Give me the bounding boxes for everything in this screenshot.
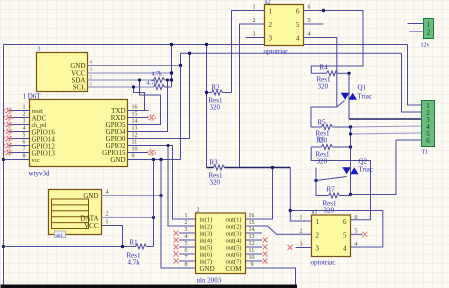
MCU right pin stubs 16-9: [128, 111, 149, 160]
wire opto1 pin3 stub: [246, 37, 265, 39]
svg-text:13: 13: [249, 234, 255, 240]
svg-text:14: 14: [132, 119, 138, 125]
svg-text:out(3): out(3): [226, 231, 242, 238]
svg-text:1: 1: [269, 8, 273, 16]
svg-text:out(5): out(5): [226, 245, 242, 252]
svg-text:2: 2: [300, 228, 303, 234]
wire Q1 gate: [337, 101, 345, 108]
triac Q1: [341, 93, 357, 100]
resistor pullup 4.7k SDA: [154, 78, 165, 83]
svg-text:2: 2: [197, 208, 200, 214]
svg-text:4.7k: 4.7k: [128, 259, 141, 267]
svg-text:out(4): out(4): [226, 238, 242, 245]
wire DHT VCC pin 1: [102, 226, 123, 247]
wire ULN GND vertical: [161, 160, 179, 269]
svg-text:8: 8: [185, 262, 188, 268]
svg-text:4.7k: 4.7k: [147, 81, 158, 87]
svg-text:2: 2: [316, 231, 320, 239]
no-ERC marks ULN in3-in7: [174, 231, 179, 264]
wire out1 riser: [262, 168, 273, 220]
wire VCC pullup vertical: [171, 45, 173, 88]
svg-text:in(2): in(2): [200, 224, 213, 231]
black power bus bar: [1, 285, 298, 288]
svg-text:in(1): in(1): [200, 217, 213, 224]
wire SDA jog to GPIO4: [149, 80, 168, 132]
svg-text:un1: un1: [56, 234, 64, 239]
resistor R6: [322, 145, 333, 150]
svg-text:1: 1: [106, 220, 109, 226]
svg-text:1: 1: [23, 105, 26, 111]
wire R2 vertical from VCC rail: [206, 45, 208, 168]
designator un1 selected: [55, 231, 66, 238]
resistor pullup 4.7k SCL: [154, 85, 165, 90]
svg-text:Triac: Triac: [358, 93, 373, 101]
svg-text:SCL: SCL: [73, 84, 86, 92]
svg-text:6: 6: [343, 218, 347, 226]
svg-text:4.7k: 4.7k: [152, 72, 163, 78]
IC U3 I2C sensor box: [37, 53, 88, 92]
wire T1 pin1 from VCC rail: [408, 45, 422, 106]
svg-text:5: 5: [185, 241, 188, 247]
svg-text:in(3): in(3): [200, 231, 213, 238]
svg-text:1: 1: [185, 213, 188, 219]
svg-text:3: 3: [316, 245, 320, 253]
wire VCC rail top: [4, 44, 408, 46]
wire Q2 feed vertical: [350, 127, 352, 175]
svg-text:COM: COM: [226, 265, 243, 273]
svg-text:Triac: Triac: [359, 166, 374, 174]
wire VCC pin: [88, 72, 172, 74]
svg-text:2: 2: [253, 18, 256, 24]
resistor R7: [329, 193, 340, 198]
DHT11 sensor box: [49, 190, 102, 235]
wire SCL pin: [88, 86, 154, 88]
svg-text:T1: T1: [422, 150, 429, 156]
svg-text:1: 1: [316, 218, 320, 226]
resistor R1 4.7k: [136, 244, 147, 249]
wire SDA stair to GPIO5: [140, 80, 161, 125]
svg-text:3: 3: [185, 227, 188, 233]
svg-text:optotriac: optotriac: [311, 259, 336, 267]
wire branch to ULN in2: [168, 146, 179, 227]
wire vcc pin8 to left rail: [4, 159, 30, 161]
svg-text:11: 11: [132, 140, 138, 146]
svg-text:9: 9: [251, 262, 254, 268]
no-ERC mark opto2 pin3: [288, 245, 293, 250]
svg-text:4: 4: [90, 60, 93, 66]
svg-text:GND: GND: [83, 192, 98, 200]
wire opto1 pin1 from R2: [232, 11, 265, 93]
svg-text:1: 1: [300, 215, 303, 221]
svg-text:320: 320: [210, 104, 221, 112]
svg-text:optotriac: optotriac: [264, 48, 289, 56]
svg-text:R2: R2: [212, 84, 221, 92]
optotriac U2 top: [265, 5, 304, 46]
ULN left stubs: [179, 219, 196, 268]
svg-text:15: 15: [132, 112, 138, 118]
connector T1: [422, 101, 435, 147]
no-ERC marks MCU left pins: [5, 108, 13, 155]
resistor R2: [212, 90, 223, 95]
svg-text:7: 7: [185, 255, 188, 261]
svg-text:4: 4: [296, 35, 300, 43]
wire opto1 pin4 to Q1 gate: [304, 38, 337, 128]
svg-text:320: 320: [324, 207, 335, 215]
wire DHT DATA pin 2: [102, 217, 154, 219]
svg-text:3: 3: [253, 32, 256, 38]
wire COM to black bus: [262, 268, 296, 286]
svg-text:3: 3: [90, 67, 93, 73]
wire SDA pin: [88, 79, 154, 81]
svg-text:320: 320: [317, 158, 328, 166]
wire T1 pin6 stub: [396, 139, 422, 141]
svg-text:GPIO13: GPIO13: [32, 150, 56, 158]
svg-text:Q2: Q2: [359, 158, 368, 166]
connector 12v: [424, 19, 434, 39]
svg-text:3: 3: [300, 242, 303, 248]
wire out2 diagonal to opto2 pin2: [262, 226, 312, 234]
svg-text:1 D6T: 1 D6T: [23, 93, 42, 101]
svg-text:R6: R6: [317, 136, 326, 144]
svg-text:1: 1: [427, 21, 431, 29]
wire GND pin to bus: [88, 65, 181, 67]
wire SCL stair to TXD: [134, 87, 145, 111]
triac Q2: [342, 167, 358, 174]
svg-text:3: 3: [38, 47, 41, 53]
svg-text:uln 2003: uln 2003: [197, 277, 222, 285]
svg-text:VCC: VCC: [84, 222, 99, 230]
svg-text:16: 16: [249, 213, 255, 219]
svg-text:11: 11: [249, 248, 255, 254]
wire left vertical VCC loop: [3, 45, 5, 286]
svg-text:5: 5: [343, 231, 347, 239]
svg-text:12: 12: [249, 241, 255, 247]
wire T1 pin2 from GND rail: [402, 53, 422, 112]
node GND junction: [179, 64, 182, 67]
svg-text:2: 2: [23, 112, 26, 118]
svg-text:10: 10: [132, 147, 138, 153]
wire 12v pin2 stub: [410, 31, 424, 33]
wire R7 to T1 pin6 riser: [351, 140, 397, 195]
svg-text:4: 4: [308, 32, 311, 38]
svg-text:14: 14: [249, 227, 255, 233]
no-ERC marks ULN out4-out7: [263, 238, 268, 264]
node VCC-left-corner dots: [2, 158, 5, 161]
svg-text:6: 6: [308, 5, 311, 11]
svg-text:u1: u1: [312, 210, 318, 216]
svg-text:5: 5: [23, 133, 26, 139]
svg-text:in(4): in(4): [200, 238, 213, 245]
svg-text:2: 2: [185, 220, 188, 226]
svg-text:R7: R7: [327, 186, 336, 194]
wire opto2 pin5 stub: [351, 233, 363, 235]
svg-text:wtyv3d: wtyv3d: [29, 170, 51, 178]
svg-text:R1: R1: [130, 239, 139, 247]
svg-text:6: 6: [426, 137, 430, 145]
svg-text:6: 6: [185, 248, 188, 254]
svg-text:320: 320: [318, 83, 329, 91]
resistor R4: [327, 71, 338, 76]
svg-text:320: 320: [210, 179, 221, 187]
wire GPIO2 to ULN in1: [149, 146, 180, 220]
svg-text:Q1: Q1: [358, 84, 367, 92]
wire Q1 to T1 pin3: [349, 118, 422, 120]
wire MCU GND row: [149, 159, 181, 161]
resistor R5: [322, 125, 333, 130]
svg-text:1: 1: [253, 5, 256, 11]
MCU left pin stubs 1-8: [10, 111, 30, 153]
svg-text:u2: u2: [265, 0, 271, 6]
svg-text:5: 5: [296, 21, 300, 29]
svg-text:2: 2: [106, 212, 109, 218]
svg-text:7: 7: [23, 147, 26, 153]
no-ERC mark GPIO15: [148, 150, 156, 155]
no-ERC mark opto2 pin5: [363, 232, 368, 237]
svg-text:2: 2: [269, 21, 273, 29]
wire GPIO0 to GND rail: [149, 53, 190, 138]
wire opto2 pin3 stub: [296, 247, 312, 249]
svg-text:R3: R3: [210, 159, 219, 167]
svg-text:13: 13: [132, 126, 138, 132]
svg-text:6: 6: [23, 140, 26, 146]
svg-text:GND: GND: [200, 265, 215, 273]
wire T1 pin5: [351, 133, 422, 134]
wire riser to opto2 pin1: [290, 168, 311, 222]
svg-text:in(5): in(5): [200, 245, 213, 252]
svg-text:out(1): out(1): [226, 217, 242, 224]
wire Q2 gate: [316, 177, 347, 181]
svg-text:ADC: ADC: [32, 115, 47, 123]
wire opto1 pin6 to R4: [304, 11, 364, 74]
optotriac U1 bottom: [312, 215, 351, 257]
svg-text:out(6): out(6): [226, 252, 242, 259]
svg-text:in(6): in(6): [200, 252, 213, 259]
wire VCC feed row R1: [4, 246, 136, 248]
svg-text:4: 4: [343, 245, 347, 253]
ULN right stubs: [246, 219, 263, 268]
MCU module D6T (ESP8266): [30, 100, 128, 167]
wire R5 to T1 pin4: [351, 126, 422, 127]
svg-text:8: 8: [23, 154, 26, 160]
svg-text:3: 3: [269, 35, 273, 43]
svg-text:4: 4: [185, 234, 188, 240]
wire opto1 pin5 stub: [304, 23, 324, 25]
IC ULN2003: [196, 213, 246, 274]
wire R6 left to opto2 pin6 net: [311, 147, 370, 220]
svg-text:10: 10: [249, 255, 255, 261]
wire GND rail: [181, 53, 402, 65]
svg-text:5: 5: [355, 228, 358, 234]
svg-text:3: 3: [23, 119, 26, 125]
svg-text:R5: R5: [318, 119, 327, 127]
wire opto2 p1-net to p4 loop: [290, 211, 383, 248]
svg-text:2: 2: [427, 29, 431, 37]
wire GND vertical to MCU: [180, 66, 182, 160]
no-ERC mark RXD: [148, 115, 156, 120]
wire DHT GND pin 4: [102, 195, 162, 197]
svg-text:4: 4: [23, 126, 26, 132]
svg-text:9: 9: [132, 154, 135, 160]
svg-text:R4: R4: [320, 64, 329, 72]
svg-text:GND: GND: [110, 156, 125, 164]
wire R1 vertical to GND row: [153, 160, 155, 247]
svg-text:vcc: vcc: [32, 158, 41, 164]
svg-text:16: 16: [132, 105, 138, 111]
svg-text:12: 12: [132, 133, 138, 139]
svg-text:6: 6: [296, 8, 300, 16]
svg-text:12v: 12v: [421, 43, 430, 49]
resistor R3: [214, 165, 225, 170]
svg-text:6: 6: [355, 215, 358, 221]
svg-text:4: 4: [106, 190, 109, 196]
svg-text:5: 5: [308, 18, 311, 24]
wire 12v pin1 stub: [408, 23, 424, 25]
svg-text:15: 15: [249, 220, 255, 226]
svg-text:out(2): out(2): [226, 224, 242, 231]
wire opto1 pin2 down: [240, 24, 265, 168]
svg-text:4: 4: [355, 242, 358, 248]
